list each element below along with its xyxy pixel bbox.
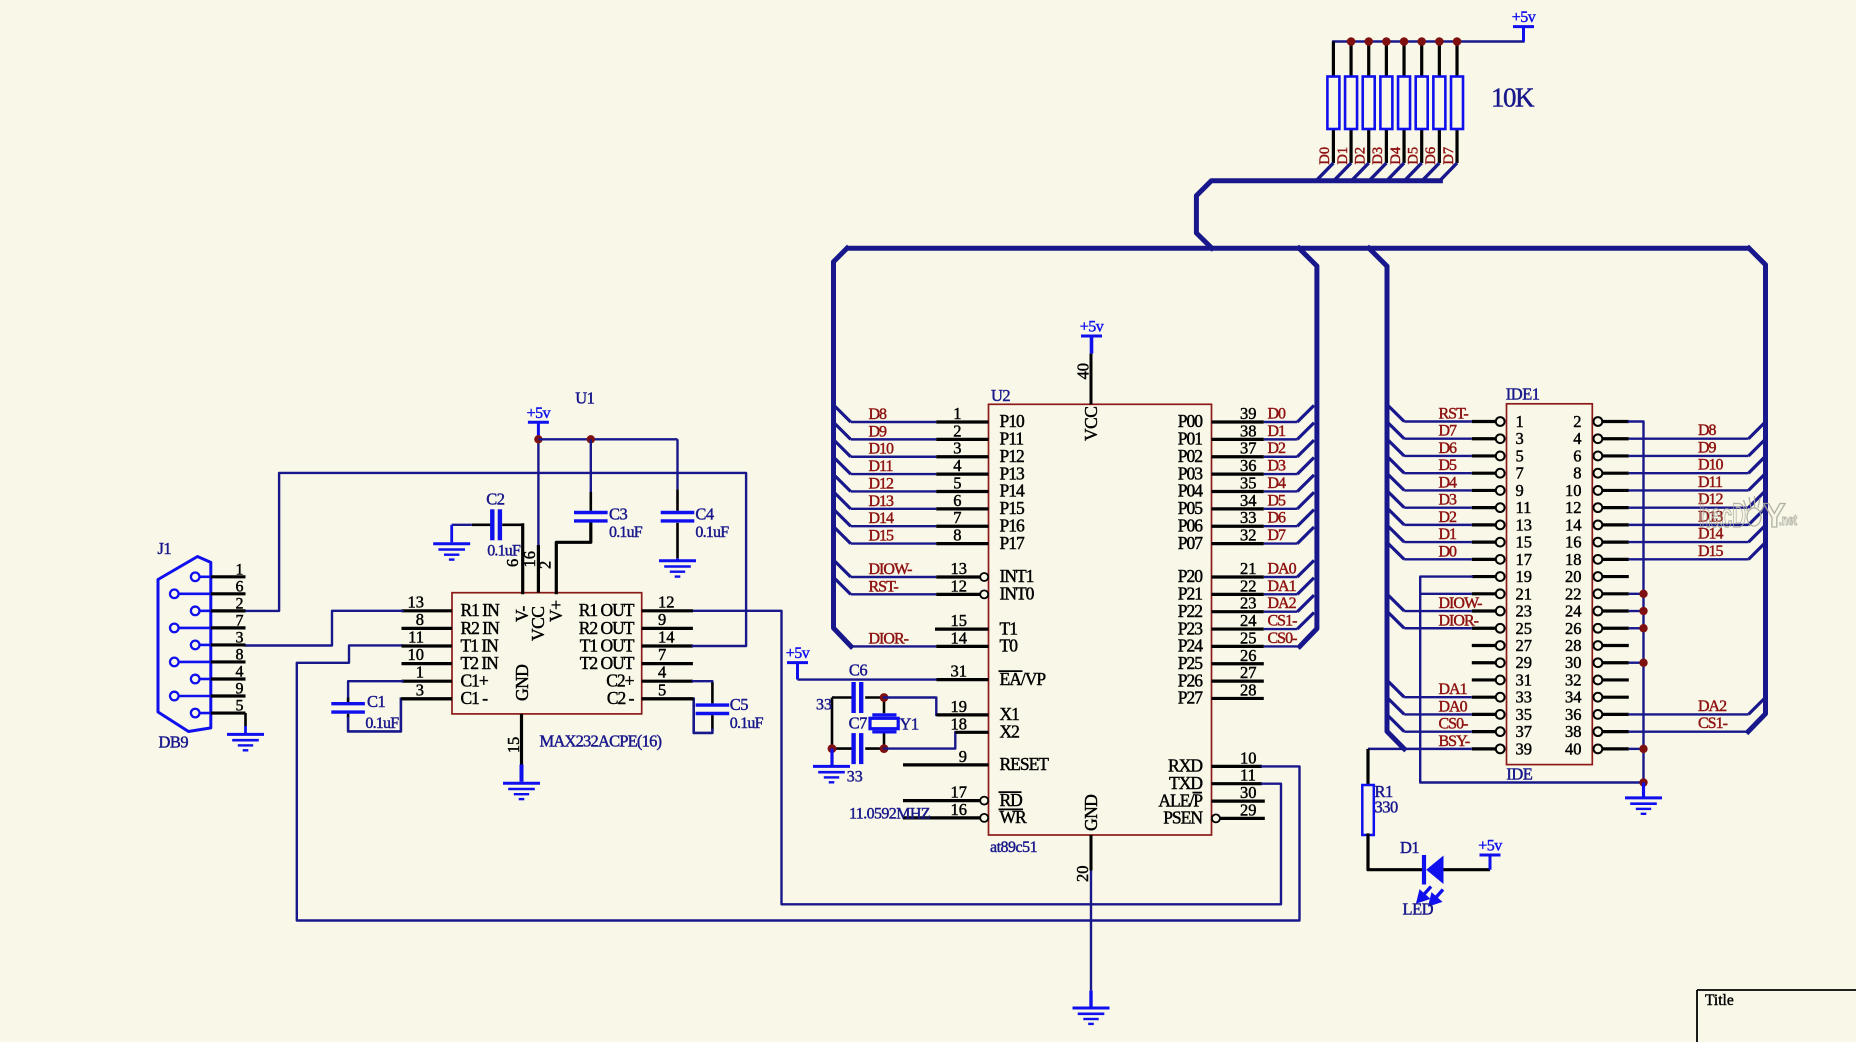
svg-text:31: 31 [1516,670,1533,689]
capacitor C2 [490,509,494,540]
svg-text:3: 3 [416,680,424,699]
ic U1 MAX232 body [452,593,642,714]
IDE pin 3 circle [1496,434,1505,443]
svg-text:23: 23 [1516,602,1533,621]
wire DIOW- to IDE pin 23 [1404,610,1472,612]
wire IDE pin 22 to ground rail [1629,593,1644,595]
pin 12 inversion circle (INT0) [980,590,988,598]
wire D2 to IDE pin 13 [1404,524,1472,526]
svg-text:C2 -: C2 - [607,688,635,708]
svg-text:D1: D1 [1268,423,1287,440]
wire resistor R1 vertical lead [1332,42,1335,164]
bus entry diagonal DIOR- (IDE left) [1387,611,1404,628]
svg-text:+5v: +5v [786,645,810,662]
svg-text:22: 22 [1240,576,1257,595]
svg-text:10: 10 [408,645,425,664]
pin 22 stub (P21) [1212,593,1264,596]
bus entry diagonal D5 (IDE left) [1387,456,1404,473]
svg-text:CS1-: CS1- [1698,715,1728,732]
pin 12 stub (INT0) [936,593,980,596]
wire D7 from U2 pin 32 [1264,542,1298,544]
junction dot resistor column D6 [1435,37,1444,46]
pin 38 stub (P01) [1212,438,1264,441]
wire resistor R6 vertical lead [1420,42,1423,164]
svg-text:GND: GND [512,665,532,701]
LED D1 triangle [1426,856,1443,885]
svg-text:C3: C3 [609,505,628,524]
pin 3 stub (C1 -) U1 [402,697,453,700]
IDE pin 18 stub [1602,558,1629,561]
bus entry diagonal D1 (IDE left) [1387,525,1404,542]
IDE pin 18 circle [1594,555,1603,564]
watermark hacDIY.net [1699,496,1797,535]
resistor 10K #5 (net D4) [1398,77,1410,130]
svg-text:22: 22 [1565,584,1582,603]
IDE pin 11 stub [1472,506,1496,509]
wire DA2 to IDE pin 36 [1629,713,1749,715]
junction dot IDE pin 40 [1639,745,1647,753]
bus IDE right outer ring [1748,248,1765,731]
IDE pin 29 stub [1472,661,1496,664]
IDE pin 4 stub [1602,437,1629,440]
DB9 pin 7 stub [211,626,246,629]
svg-text:13: 13 [1516,515,1533,534]
IDE pin 23 stub [1472,609,1496,612]
wire D12 to U2 pin 5 [851,490,937,492]
svg-text:D6: D6 [1268,510,1287,527]
svg-text:D10: D10 [1698,457,1724,474]
junction dot IDE pin 30 [1639,659,1647,667]
wire D14 to IDE pin 16 [1629,541,1749,543]
DB9 pin 6 circle [170,590,179,599]
svg-text:17: 17 [951,783,968,802]
bus entry diagonal D10 (IDE right) [1749,457,1766,474]
svg-text:D7: D7 [1268,527,1287,544]
IDE pin 11 circle [1496,503,1505,512]
pin 11 stub (T1 IN) U1 [402,644,453,647]
bus entry diagonal CS1- (U2 right) [1297,612,1314,629]
DB9 pin 9 wire inside [179,695,211,698]
bus entry diagonal D11 (U2 left) [834,458,851,475]
DB9 pin 7 circle [170,624,179,633]
pin 28 stub (P27) [1212,697,1264,700]
svg-text:C7: C7 [849,714,868,733]
pin 12 stub (R1 OUT) U1 [642,609,693,612]
IDE pin 20 stub [1602,575,1629,578]
bus entry diagonal D7 (IDE left) [1387,422,1404,439]
DB9 pin 8 wire inside [179,661,211,664]
svg-text:11: 11 [1240,766,1256,785]
capacitor C5 [696,703,730,706]
svg-text:C5: C5 [730,695,749,714]
junction dot +5v/VCC (U1) [534,435,542,443]
pin 16 inversion circle (WR) [980,814,988,822]
wire D9 to U2 pin 2 [851,438,937,440]
IDE pin 22 circle [1594,589,1603,598]
DB9 pin 6 stub [211,592,246,595]
svg-text:D4: D4 [1439,474,1458,491]
pin 5 stub (C2 -) U1 [642,697,693,700]
pin 20 wire (GND) [1090,835,1093,871]
svg-text:4: 4 [953,456,961,475]
svg-text:D10: D10 [869,441,895,458]
IDE pin 37 stub [1472,730,1496,733]
wire resistor R3 vertical lead [1367,42,1370,164]
pin 24 stub (P23) [1212,627,1264,630]
svg-text:DA0: DA0 [1439,698,1468,715]
svg-text:CS1-: CS1- [1268,613,1298,630]
svg-text:32: 32 [1240,526,1257,545]
svg-text:28: 28 [1565,636,1582,655]
svg-text:D4: D4 [1268,475,1287,492]
ic U2 at89c51 body [989,404,1212,835]
svg-text:27: 27 [1516,636,1533,655]
bus entry diagonal D8 (U2 left) [834,405,851,422]
DB9 pin 8 stub [211,660,246,663]
resistor 10K #4 (net D3) [1380,77,1392,130]
pin 13 stub (R1 IN) U1 [402,609,453,612]
DB9 pin 2 wire inside [200,610,211,613]
wire IDE pin 40 to ground rail [1629,748,1644,750]
svg-text:C6: C6 [849,661,868,680]
svg-text:IDE: IDE [1506,765,1532,784]
svg-text:13: 13 [951,559,968,578]
IDE pin 12 stub [1602,506,1629,509]
DB9 pin 2 circle [191,607,200,616]
svg-text:D0: D0 [1268,406,1287,423]
svg-text:15: 15 [951,611,968,630]
bus entry diagonal D12 (U2 left) [834,475,851,492]
junction dot C3 top [587,435,595,443]
wire crystal bottom node (X2 row) [832,747,853,750]
DB9 pin 5 stub [211,711,246,714]
IDE pin 27 stub [1472,644,1496,647]
wire crystal top node (X1 row) [832,696,853,699]
junction dot crystal bottom [880,744,889,753]
IDE pin 35 stub [1472,713,1496,716]
svg-text:P27: P27 [1178,688,1203,708]
bus entry diagonal D4 (resistor network) [1387,163,1404,181]
pin 16 wire (VCC) U1 [537,545,540,593]
junction dot resistor column D3 [1382,37,1391,46]
svg-text:1: 1 [416,663,424,682]
IDE pin 35 circle [1496,710,1505,719]
wire D5 from U2 pin 34 [1264,508,1298,510]
wire D0 to IDE pin 17 [1404,558,1472,560]
wire D15 to U2 pin 8 [851,542,937,544]
IDE pin 17 circle [1496,555,1505,564]
IDE pin 28 stub [1602,644,1629,647]
wire +5v node to C3/C4 [538,438,677,440]
IDE pin 20 circle [1594,572,1603,581]
wire C4 top lead [676,439,678,489]
svg-text:C4: C4 [695,505,714,524]
svg-text:D6: D6 [1439,440,1458,457]
wire D4 to IDE pin 9 [1404,489,1472,491]
capacitor C7 [851,733,855,764]
IDE pin 34 circle [1594,693,1603,702]
pin 15 wire (GND) U1 [520,714,523,765]
junction dot resistor column D1 [1347,37,1356,46]
bus U2 right ring [1299,248,1317,646]
IDE pin 10 circle [1594,486,1603,495]
svg-text:+5v: +5v [1080,319,1104,336]
svg-text:14: 14 [658,628,675,647]
IDE pin 5 stub [1472,454,1496,457]
DB9 pin 3 circle [191,641,200,650]
wire IDE pin19/21 to ground rail [1420,577,1643,783]
svg-text:INT0: INT0 [1000,584,1035,604]
ground (IDE) [1642,783,1645,797]
wire BSY- to resistor R1 [1366,749,1369,785]
LED D1 emission arrows [1418,887,1443,905]
pin 16 stub (WR) [903,816,980,819]
bus entry diagonal D5 (resistor network) [1405,163,1422,181]
svg-text:7: 7 [953,508,961,527]
pin 13 stub (INT1) [936,575,980,578]
svg-text:6: 6 [1573,446,1581,465]
junction dot resistor column D5 [1417,37,1426,46]
IDE pin 32 circle [1594,676,1603,685]
bus entry diagonal D13 (U2 left) [834,492,851,509]
svg-text:8: 8 [953,526,961,545]
svg-text:D12: D12 [869,475,895,492]
IDE pin 8 circle [1594,469,1603,478]
IDE pin 36 stub [1602,713,1629,716]
svg-text:8: 8 [416,610,424,629]
wire U2 GND down [1090,871,1092,991]
svg-text:3: 3 [236,629,244,646]
wire resistor R5 vertical lead [1402,42,1405,164]
IDE pin 16 stub [1602,541,1629,544]
svg-text:DA1: DA1 [1268,578,1297,595]
bus entry diagonal D0 (resistor network) [1316,163,1333,181]
svg-text:18: 18 [951,714,968,733]
IDE pin 7 stub [1472,472,1496,475]
pin 29 inversion circle (PSEN) [1212,814,1220,822]
wire DA0 to IDE pin 35 [1404,713,1472,715]
bus entry diagonal D6 (IDE left) [1387,439,1404,456]
wire DB9 pin3 to U1 R1 IN [246,611,403,646]
wire D12 to IDE pin 12 [1629,506,1749,508]
wire D10 to U2 pin 3 [851,456,937,458]
pin 25 stub (P24) [1212,645,1264,648]
wire DIOR- to U2 pin 14 (T0) [851,645,936,647]
svg-text:.net: .net [1779,512,1797,529]
junction dot resistor column D4 [1400,37,1409,46]
IDE pin 13 circle [1496,520,1505,529]
svg-text:IDE1: IDE1 [1506,385,1540,404]
svg-text:X2: X2 [1000,722,1020,742]
IDE pin 24 stub [1602,609,1629,612]
IDE pin 17 stub [1472,558,1496,561]
pin 39 stub (P00) [1212,420,1264,423]
pin 26 stub (P25) [1212,662,1264,665]
wire DB9 pin2 to U1 T1 OUT [246,473,747,646]
capacitor C6 [851,682,855,713]
svg-text:D8: D8 [1698,422,1717,439]
svg-text:C2: C2 [486,490,505,509]
resistor 10K #8 (net D7) [1451,77,1463,130]
svg-text:LED: LED [1403,900,1434,919]
IDE pin 38 stub [1602,730,1629,733]
svg-text:21: 21 [1516,584,1533,603]
wire D14 to U2 pin 7 [851,525,937,527]
svg-text:29: 29 [1516,653,1533,672]
wire C1- stub [401,697,452,700]
bus entry diagonal D3 (U2 right) [1297,458,1314,475]
wire IDE pin 26 to ground rail [1629,627,1644,629]
DB9 pin 9 circle [170,692,179,701]
svg-text:27: 27 [1240,663,1257,682]
bus entry diagonal D7 (U2 right) [1297,527,1314,544]
svg-text:33: 33 [816,697,832,714]
svg-text:37: 37 [1240,439,1257,458]
svg-text:16: 16 [951,800,968,819]
pin 13 inversion circle (INT1) [980,573,988,581]
wire D0 from U2 pin 39 [1264,421,1298,423]
svg-text:D1: D1 [1439,526,1458,543]
wire R1 to LED D1 [1368,835,1422,870]
bus entry diagonal D2 (resistor network) [1352,163,1369,181]
svg-text:6: 6 [953,491,961,510]
wire BSY- to IDE pin 39 and R1 [1368,748,1472,750]
IDE pin 15 circle [1496,538,1505,547]
svg-text:25: 25 [1516,619,1533,638]
bus entry diagonal CS1- (IDE right) [1749,715,1766,732]
capacitor C3 [574,511,608,514]
svg-text:D7: D7 [1441,147,1457,165]
IDE pin 5 circle [1496,452,1505,461]
svg-text:9: 9 [236,681,244,698]
IDE pin 23 circle [1496,607,1505,616]
bus entry diagonal D2 (IDE left) [1387,508,1404,525]
IDE pin 30 circle [1594,658,1603,667]
pin 5 stub (P14) [936,490,988,493]
svg-text:31: 31 [951,662,968,681]
pin 14 stub (T0) [936,645,988,648]
bus entry diagonal DA0 (IDE left) [1387,697,1404,714]
svg-text:40: 40 [1565,739,1582,758]
svg-text:39: 39 [1240,404,1257,423]
IDE pin 7 circle [1496,469,1505,478]
svg-text:7: 7 [1516,464,1524,483]
wire C2 right lead to pin 6 [502,523,523,526]
svg-text:5: 5 [1516,446,1524,465]
svg-text:30: 30 [1565,653,1582,672]
pin 6 stub (P15) [936,507,988,510]
svg-text:at89c51: at89c51 [990,839,1038,856]
svg-text:+5v: +5v [527,405,551,422]
IDE pin 9 stub [1472,489,1496,492]
junction dot IDE pin 22 [1639,590,1647,598]
svg-text:28: 28 [1240,680,1257,699]
pin 15 stub (T1) [935,627,989,630]
wire VCC to +5v node (U1) [537,439,539,545]
ground (C2) [450,525,453,543]
wire DIOR- to IDE pin 25 [1404,627,1472,629]
IDE pin 25 stub [1472,627,1496,630]
pin 32 stub (P07) [1212,542,1264,545]
svg-text:D2: D2 [1268,440,1287,457]
wire C2- stub [642,697,694,700]
svg-text:10K: 10K [1491,83,1535,113]
svg-text:VCC: VCC [1081,407,1101,441]
svg-text:32: 32 [1565,670,1582,689]
ground (DB9 pin5) [227,733,264,736]
pin 23 stub (P22) [1212,610,1264,613]
svg-text:2: 2 [953,421,961,440]
svg-text:29: 29 [1240,800,1257,819]
bus entry diagonal RST- (U2 left) [834,578,851,595]
wire IDE pin21 join [1420,593,1472,595]
svg-text:18: 18 [1565,550,1582,569]
title block [1697,990,1856,1042]
IDE pin 27 circle [1496,641,1505,650]
wire CS0- to IDE pin 37 [1404,730,1472,732]
svg-text:9: 9 [1516,481,1524,500]
bus entry diagonal D7 (resistor network) [1440,163,1457,181]
svg-text:D8: D8 [869,406,888,423]
resistor R1 [1362,785,1374,835]
pin 7 stub (P16) [936,525,988,528]
svg-text:24: 24 [1240,611,1257,630]
svg-text:CS0-: CS0- [1268,630,1298,647]
pin 27 stub (P26) [1212,679,1264,682]
wire C1 bottom loop to C1- [347,714,350,718]
wire resistor R4 vertical lead [1385,42,1388,164]
IDE pin 19 stub [1472,575,1496,578]
DB9 pin 9 stub [211,694,246,697]
svg-text:5: 5 [953,473,961,492]
wire DA1 to IDE pin 33 [1404,696,1472,698]
svg-text:3: 3 [953,439,961,458]
svg-text:0.1uF: 0.1uF [365,715,399,732]
IDE pin 15 stub [1472,541,1496,544]
svg-text:11: 11 [1516,498,1532,517]
wire D1 to IDE pin 15 [1404,541,1472,543]
IDE pin 1 stub [1472,420,1496,423]
svg-text:0.1uF: 0.1uF [487,543,521,560]
svg-text:1: 1 [953,404,961,423]
svg-text:DA1: DA1 [1439,681,1468,698]
DB9 pin 7 wire inside [179,627,211,630]
pin 14 stub (T1 OUT) U1 [642,644,693,647]
pin 6 wire (V-) U1 [521,525,524,593]
IDE pin 21 circle [1496,589,1505,598]
IDE pin 8 stub [1602,472,1629,475]
svg-text:D15: D15 [869,528,895,545]
wire DA2 from U2 pin 23 [1264,611,1298,613]
svg-text:11: 11 [408,628,424,647]
wire D13 to U2 pin 6 [851,508,937,510]
wire DB9 pin5 to ground [244,713,247,726]
bus IDE left ring [1369,248,1404,749]
pin 4 stub (P13) [936,473,988,476]
svg-text:2: 2 [236,595,244,612]
ground (C4) [676,558,679,559]
svg-text:8: 8 [236,646,244,663]
pin 21 stub (P20) [1212,575,1264,578]
junction dot resistor column D2 [1364,37,1373,46]
svg-text:37: 37 [1516,722,1533,741]
svg-text:9: 9 [658,610,666,629]
IDE pin 32 stub [1602,678,1629,681]
IDE pin 2 stub [1602,420,1629,423]
IDE pin 31 circle [1496,676,1505,685]
IDE pin 22 stub [1602,592,1629,595]
svg-text:DIOW-: DIOW- [869,561,913,578]
